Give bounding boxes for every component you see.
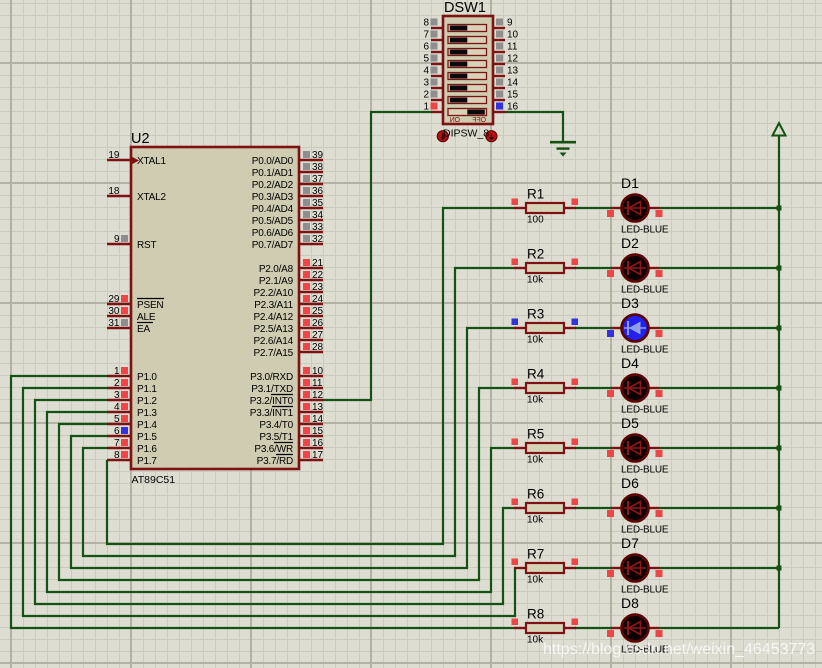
DSW1 switch element 1 xyxy=(448,109,487,116)
svg-text:P3.1/TXD: P3.1/TXD xyxy=(251,384,293,395)
svg-text:9: 9 xyxy=(114,234,120,245)
svg-text:18: 18 xyxy=(108,186,120,197)
U2 pin 26 (P2.5/A13) xyxy=(253,318,323,335)
wire D3 to VCC rail xyxy=(659,327,779,329)
svg-text:P3.0/RXD: P3.0/RXD xyxy=(250,372,293,383)
svg-text:LED-BLUE: LED-BLUE xyxy=(621,465,669,476)
svg-text:30: 30 xyxy=(108,306,120,317)
svg-text:D1: D1 xyxy=(621,175,639,191)
DSW1 pin 2 (left) xyxy=(423,89,443,100)
U2 pin 5 (P1.4) xyxy=(107,414,157,431)
DSW1 pin 13 (right) xyxy=(493,65,519,76)
svg-text:38: 38 xyxy=(312,162,324,173)
wire R1 to D1 xyxy=(575,207,611,209)
wire U2 P1.0 to R8 xyxy=(11,376,515,628)
U2 pin 1 (P1.0) xyxy=(107,366,157,383)
DSW1 pin 8 (left) xyxy=(423,17,443,28)
svg-text:PSEN: PSEN xyxy=(137,300,163,311)
svg-text:R7: R7 xyxy=(527,547,544,562)
LED D3 xyxy=(607,295,669,356)
svg-text:3: 3 xyxy=(114,390,120,401)
U2 pin 12 (P3.2/INT0) xyxy=(250,390,324,407)
DSW1 pin 9 (right) xyxy=(493,17,513,28)
svg-text:10: 10 xyxy=(507,29,519,40)
U2 pin 34 (P0.5/AD5) xyxy=(252,210,324,227)
DSW1 pin 7 (left) xyxy=(423,29,443,40)
wire D2 to VCC rail xyxy=(659,267,779,269)
svg-text:14: 14 xyxy=(312,414,324,425)
svg-text:7: 7 xyxy=(423,29,429,40)
svg-text:P1.3: P1.3 xyxy=(137,408,157,419)
svg-text:10k: 10k xyxy=(527,515,544,526)
svg-text:8: 8 xyxy=(114,450,120,461)
LED D4 xyxy=(607,355,669,416)
resistor R1 xyxy=(512,187,579,226)
junction VCC rail / D3 row xyxy=(777,326,782,331)
DSW1 pin 4 (left) xyxy=(423,65,443,76)
svg-text:P2.6/A14: P2.6/A14 xyxy=(253,336,293,347)
svg-text:36: 36 xyxy=(312,186,324,197)
svg-text:P2.1/A9: P2.1/A9 xyxy=(259,276,294,287)
svg-text:4: 4 xyxy=(114,402,120,413)
DSW1 pin 14 (right) xyxy=(493,77,519,88)
wire R3 to D3 xyxy=(575,327,611,329)
wire U2 P1.3 to R5 xyxy=(47,412,515,592)
LED D2 xyxy=(607,235,669,296)
svg-text:P3.3/INT1: P3.3/INT1 xyxy=(250,408,294,419)
wire U2 P1.6 to R2 xyxy=(83,268,515,556)
wire U2 P1.4 to R4 xyxy=(59,388,515,580)
svg-text:R2: R2 xyxy=(527,247,544,262)
DSW1 pin 12 (right) xyxy=(493,53,519,64)
junction VCC rail / D6 row xyxy=(777,506,782,511)
junction VCC rail / D4 row xyxy=(777,386,782,391)
svg-text:P2.5/A13: P2.5/A13 xyxy=(253,324,293,335)
svg-text:U2: U2 xyxy=(131,131,150,147)
DSW1 actuator (increment) xyxy=(486,131,497,142)
svg-text:P0.1/AD1: P0.1/AD1 xyxy=(252,168,294,179)
DSW1 actuator (decrement) xyxy=(437,131,448,142)
U2 pin 21 (P2.0/A8) xyxy=(259,258,324,275)
svg-text:1: 1 xyxy=(114,366,120,377)
svg-text:ALE: ALE xyxy=(137,312,156,323)
wire D8 to VCC rail xyxy=(659,627,779,629)
U2 pin 10 (P3.0/RXD) xyxy=(250,366,323,383)
svg-text:OFF: OFF xyxy=(473,117,486,124)
svg-text:39: 39 xyxy=(312,150,324,161)
svg-text:P0.6/AD6: P0.6/AD6 xyxy=(252,228,294,239)
U2 pin 39 (P0.0/AD0) xyxy=(252,150,324,167)
svg-text:10k: 10k xyxy=(527,575,544,586)
svg-text:8: 8 xyxy=(423,17,429,28)
U2 pin 14 (P3.4/T0) xyxy=(259,414,323,431)
svg-text:10k: 10k xyxy=(527,335,544,346)
DSW1 switch element 7 xyxy=(448,37,487,44)
svg-text:12: 12 xyxy=(312,390,324,401)
DSW1 switch element 8 xyxy=(448,25,487,32)
U2 pin 4 (P1.3) xyxy=(107,402,157,419)
junction VCC rail / D5 row xyxy=(777,446,782,451)
svg-text:15: 15 xyxy=(507,89,519,100)
svg-text:6: 6 xyxy=(423,41,429,52)
U2 pin 24 (P2.3/A11) xyxy=(254,294,323,311)
DSW1 pin 1 (left) xyxy=(423,101,443,112)
wire U2 P1.5 to R3 xyxy=(71,328,515,568)
DSW1 switch element 5 xyxy=(448,61,487,68)
svg-text:16: 16 xyxy=(507,101,519,112)
svg-text:D5: D5 xyxy=(621,415,639,431)
U2 pin 19 (XTAL1) xyxy=(107,150,166,167)
svg-text:10: 10 xyxy=(312,366,324,377)
svg-text:37: 37 xyxy=(312,174,324,185)
svg-text:35: 35 xyxy=(312,198,324,209)
wire R2 to D2 xyxy=(575,267,611,269)
wire VCC rail vertical xyxy=(778,136,780,628)
svg-text:4: 4 xyxy=(423,65,429,76)
svg-text:11: 11 xyxy=(312,378,323,389)
svg-text:P1.0: P1.0 xyxy=(137,372,157,383)
svg-text:LED-BLUE: LED-BLUE xyxy=(621,345,669,356)
U2 pin 8 (P1.7) xyxy=(107,450,157,467)
U2 pin 13 (P3.3/INT1) xyxy=(250,402,324,419)
LED D8 xyxy=(607,595,669,656)
svg-text:P2.3/A11: P2.3/A11 xyxy=(254,300,293,311)
wire DSW1 pin16 to ground xyxy=(505,112,563,142)
wire U2 P1.7 to R1 xyxy=(107,208,515,544)
DSW1 pin 11 (right) xyxy=(493,41,518,52)
svg-text:EA: EA xyxy=(137,324,150,335)
U2 pin 25 (P2.4/A12) xyxy=(253,306,323,323)
svg-text:14: 14 xyxy=(507,77,519,88)
svg-text:P3.4/T0: P3.4/T0 xyxy=(259,420,293,431)
svg-text:D6: D6 xyxy=(621,475,639,491)
svg-text:23: 23 xyxy=(312,282,324,293)
U2 pin 37 (P0.2/AD2) xyxy=(252,174,324,191)
U2 pin 31 (EA) xyxy=(107,318,153,335)
resistor R8 xyxy=(512,607,579,646)
resistor R5 xyxy=(512,427,579,466)
svg-text:D7: D7 xyxy=(621,535,639,551)
U2 pin 7 (P1.6) xyxy=(107,438,157,455)
U2 pin 36 (P0.3/AD3) xyxy=(252,186,324,203)
svg-text:5: 5 xyxy=(114,414,120,425)
DIP switch DSW1 xyxy=(423,0,518,142)
svg-text:10k: 10k xyxy=(527,395,544,406)
LED D6 xyxy=(607,475,669,536)
U2 pin 22 (P2.1/A9) xyxy=(259,270,324,287)
svg-text:10k: 10k xyxy=(527,455,544,466)
U2 pin 35 (P0.4/AD4) xyxy=(252,198,324,215)
svg-text:16: 16 xyxy=(312,438,324,449)
ground symbol xyxy=(550,142,576,156)
DSW1 switch element 2 xyxy=(448,97,487,104)
junction VCC rail / D7 row xyxy=(777,566,782,571)
resistor R2 xyxy=(512,247,579,286)
U2 pin 11 (P3.1/TXD) xyxy=(251,378,323,395)
svg-text:D4: D4 xyxy=(621,355,639,371)
junction VCC rail / D2 row xyxy=(777,266,782,271)
wire R4 to D4 xyxy=(575,387,611,389)
LED D5 xyxy=(607,415,669,476)
DSW1 switch element 6 xyxy=(448,49,487,56)
svg-text:LED-BLUE: LED-BLUE xyxy=(621,585,669,596)
svg-text:P0.0/AD0: P0.0/AD0 xyxy=(252,156,294,167)
svg-text:D2: D2 xyxy=(621,235,639,251)
IC U2 AT89C51 xyxy=(107,131,324,486)
svg-text:10k: 10k xyxy=(527,275,544,286)
svg-text:28: 28 xyxy=(312,342,324,353)
svg-text:P2.2/A10: P2.2/A10 xyxy=(253,288,293,299)
svg-text:5: 5 xyxy=(423,53,429,64)
svg-text:1: 1 xyxy=(423,101,429,112)
U2 pin 28 (P2.7/A15) xyxy=(253,342,323,359)
wire R6 to D6 xyxy=(575,507,611,509)
resistor R6 xyxy=(512,487,579,526)
svg-text:P3.2/INT0: P3.2/INT0 xyxy=(250,396,294,407)
svg-text:29: 29 xyxy=(108,294,120,305)
svg-text:27: 27 xyxy=(312,330,324,341)
wire D5 to VCC rail xyxy=(659,447,779,449)
wire U2 P1.1 to R7 xyxy=(23,388,515,616)
wire D1 to VCC rail xyxy=(659,207,779,209)
LED D7 xyxy=(607,535,669,596)
svg-text:AT89C51: AT89C51 xyxy=(132,474,176,486)
svg-text:P1.2: P1.2 xyxy=(137,396,157,407)
DSW1 pin 10 (right) xyxy=(493,29,519,40)
svg-text:10k: 10k xyxy=(527,635,544,646)
svg-text:32: 32 xyxy=(312,234,324,245)
svg-text:24: 24 xyxy=(312,294,324,305)
DSW1 pin 16 (right) xyxy=(493,101,519,112)
svg-text:LED-BLUE: LED-BLUE xyxy=(621,225,669,236)
svg-text:7: 7 xyxy=(114,438,120,449)
svg-text:P3.7/RD: P3.7/RD xyxy=(257,456,293,467)
svg-text:31: 31 xyxy=(108,318,120,329)
svg-text:13: 13 xyxy=(507,65,519,76)
svg-text:DSW1: DSW1 xyxy=(444,0,486,16)
wire U2 P1.2 to R6 xyxy=(35,400,515,604)
svg-text:15: 15 xyxy=(312,426,324,437)
svg-text:25: 25 xyxy=(312,306,324,317)
svg-text:34: 34 xyxy=(312,210,324,221)
svg-text:6: 6 xyxy=(114,426,120,437)
U2 pin 17 (P3.7/RD) xyxy=(257,450,324,467)
svg-text:26: 26 xyxy=(312,318,324,329)
U2 pin 30 (ALE) xyxy=(107,306,156,323)
svg-text:19: 19 xyxy=(108,150,120,161)
svg-text:P2.0/A8: P2.0/A8 xyxy=(259,264,294,275)
DSW1 pin 6 (left) xyxy=(423,41,443,52)
resistor R7 xyxy=(512,547,579,586)
U2 pin 6 (P1.5) xyxy=(107,426,157,443)
svg-text:R8: R8 xyxy=(527,607,544,622)
U2 pin 23 (P2.2/A10) xyxy=(253,282,323,299)
svg-text:P1.4: P1.4 xyxy=(137,420,157,431)
svg-text:P0.5/AD5: P0.5/AD5 xyxy=(252,216,294,227)
svg-text:9: 9 xyxy=(507,17,513,28)
wire DSW1 pin1 to U2 P3.2/INT0 xyxy=(323,112,431,400)
svg-text:12: 12 xyxy=(507,53,519,64)
svg-text:P3.6/WR: P3.6/WR xyxy=(254,444,293,455)
U2 pin 27 (P2.6/A14) xyxy=(253,330,323,347)
wire D4 to VCC rail xyxy=(659,387,779,389)
resistor R3 xyxy=(512,307,579,346)
wire D6 to VCC rail xyxy=(659,507,779,509)
svg-text:P2.7/A15: P2.7/A15 xyxy=(253,348,293,359)
svg-text:R1: R1 xyxy=(527,187,544,202)
svg-text:2: 2 xyxy=(423,89,429,100)
svg-text:3: 3 xyxy=(423,77,429,88)
wire D7 to VCC rail xyxy=(659,567,779,569)
svg-text:XTAL2: XTAL2 xyxy=(137,192,166,203)
svg-text:11: 11 xyxy=(507,41,518,52)
wire R8 to D8 xyxy=(575,627,611,629)
resistor R4 xyxy=(512,367,579,406)
svg-text:P0.3/AD3: P0.3/AD3 xyxy=(252,192,294,203)
svg-text:D8: D8 xyxy=(621,595,639,611)
svg-text:LED-BLUE: LED-BLUE xyxy=(621,285,669,296)
wire R5 to D5 xyxy=(575,447,611,449)
svg-text:22: 22 xyxy=(312,270,324,281)
svg-text:R4: R4 xyxy=(527,367,545,382)
DSW1 pin 15 (right) xyxy=(493,89,519,100)
U2 pin 29 (PSEN) xyxy=(107,294,164,311)
DSW1 pin 3 (left) xyxy=(423,77,443,88)
svg-text:R3: R3 xyxy=(527,307,544,322)
DSW1 switch element 4 xyxy=(448,73,487,80)
svg-text:P1.5: P1.5 xyxy=(137,432,157,443)
U2 pin 38 (P0.1/AD1) xyxy=(252,162,324,179)
svg-text:P3.5/T1: P3.5/T1 xyxy=(259,432,293,443)
svg-text:17: 17 xyxy=(312,450,324,461)
U2 pin 16 (P3.6/WR) xyxy=(254,438,323,455)
U2 pin 2 (P1.1) xyxy=(107,378,157,395)
svg-text:XTAL1: XTAL1 xyxy=(137,156,166,167)
svg-text:LED-BLUE: LED-BLUE xyxy=(621,405,669,416)
DSW1 pin 5 (left) xyxy=(423,53,443,64)
U2 pin 32 (P0.7/AD7) xyxy=(252,234,324,251)
svg-text:R6: R6 xyxy=(527,487,544,502)
svg-text:LED-BLUE: LED-BLUE xyxy=(621,525,669,536)
svg-text:P1.7: P1.7 xyxy=(137,456,157,467)
U2 pin 9 (RST) xyxy=(107,234,156,251)
junction VCC rail / D1 row xyxy=(777,206,782,211)
svg-text:21: 21 xyxy=(312,258,324,269)
power terminal VCC (arrow) xyxy=(773,123,786,136)
DSW1 switch element 3 xyxy=(448,85,487,92)
U2 pin 33 (P0.6/AD6) xyxy=(252,222,324,239)
svg-text:DIPSW_8: DIPSW_8 xyxy=(443,128,489,140)
svg-text:100: 100 xyxy=(527,215,544,226)
svg-text:13: 13 xyxy=(312,402,324,413)
svg-text:P2.4/A12: P2.4/A12 xyxy=(253,312,293,323)
svg-text:2: 2 xyxy=(114,378,120,389)
svg-text:P1.6: P1.6 xyxy=(137,444,157,455)
svg-text:33: 33 xyxy=(312,222,324,233)
svg-text:P0.4/AD4: P0.4/AD4 xyxy=(252,204,294,215)
svg-text:P1.1: P1.1 xyxy=(137,384,157,395)
svg-text:D3: D3 xyxy=(621,295,639,311)
svg-text:P0.2/AD2: P0.2/AD2 xyxy=(252,180,294,191)
svg-text:RST: RST xyxy=(137,240,156,251)
wire R7 to D7 xyxy=(575,567,611,569)
U2 pin 3 (P1.2) xyxy=(107,390,157,407)
svg-text:ON: ON xyxy=(450,117,460,124)
svg-text:P0.7/AD7: P0.7/AD7 xyxy=(252,240,294,251)
svg-text:R5: R5 xyxy=(527,427,544,442)
U2 pin 15 (P3.5/T1) xyxy=(259,426,323,443)
svg-text:https://blog.csdn.net/weixin_4: https://blog.csdn.net/weixin_46453773 xyxy=(543,641,815,658)
LED D1 xyxy=(607,175,669,236)
U2 pin 18 (XTAL2) xyxy=(107,186,166,203)
